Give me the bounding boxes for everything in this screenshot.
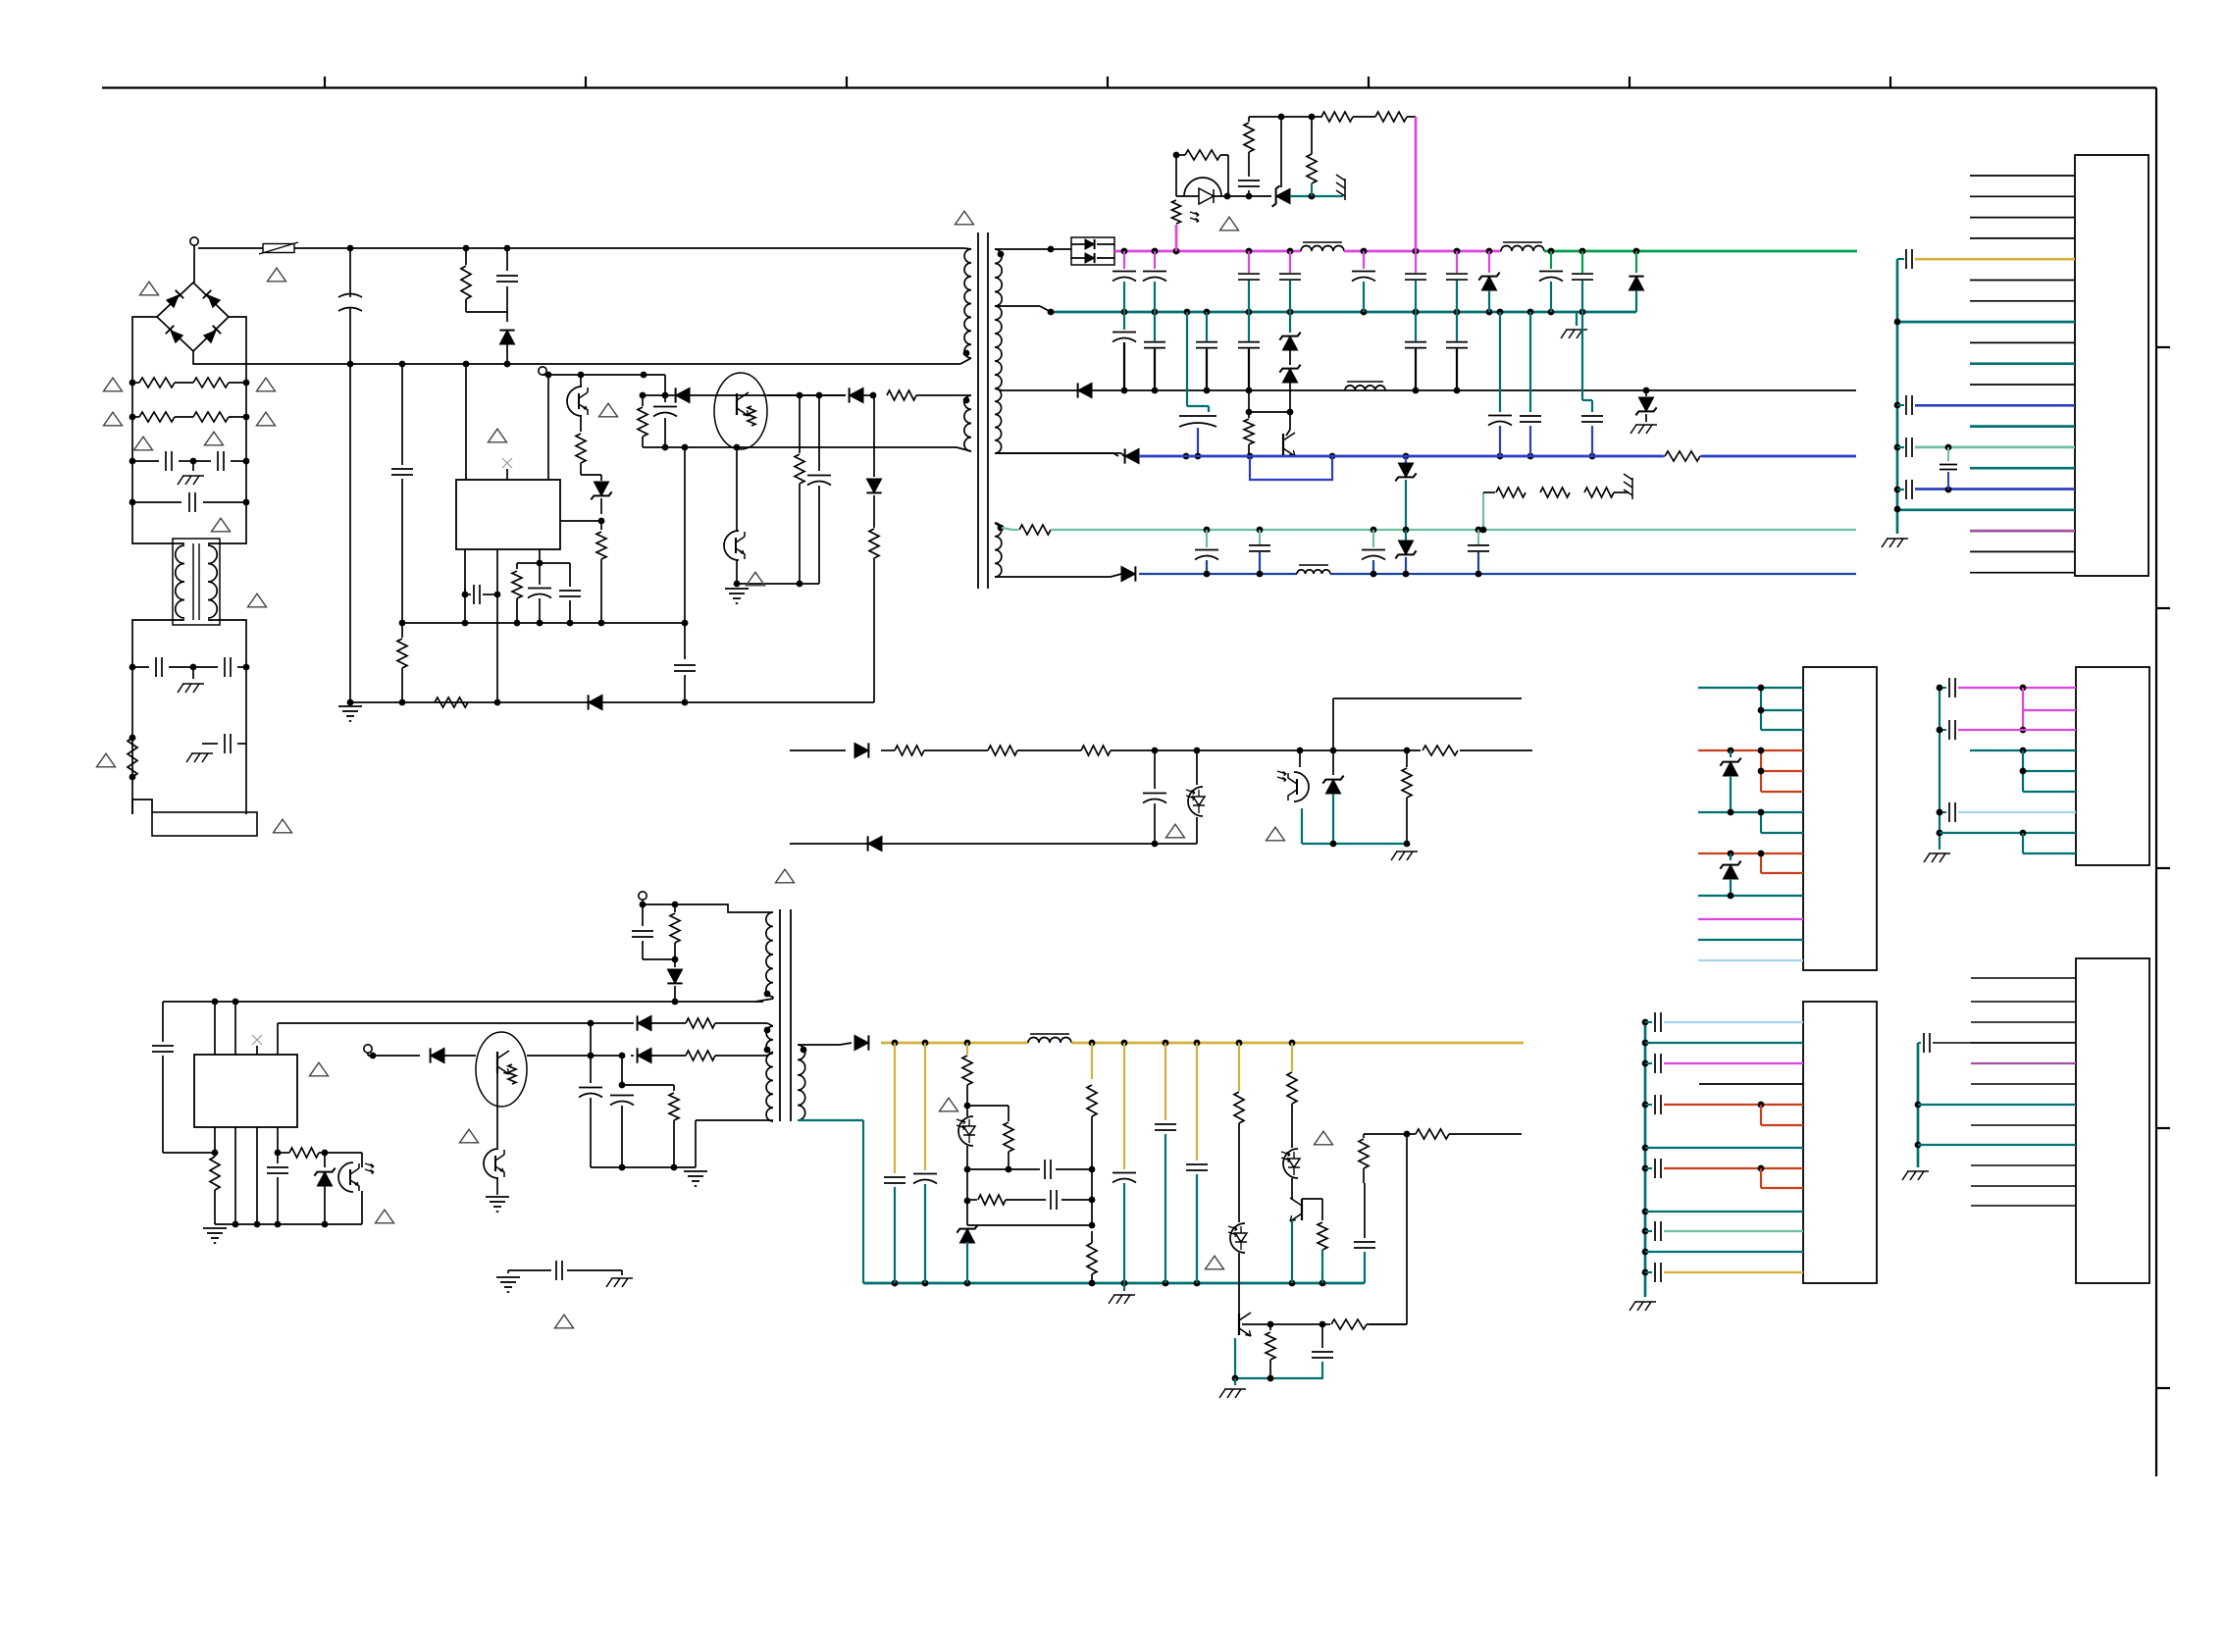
resistor R55 [1234,1092,1244,1123]
pin wire [1664,1271,1803,1273]
junction [1194,748,1201,754]
junction [233,1221,239,1228]
wire y1192 [967,1168,1040,1170]
zener ZD12 [959,1229,974,1243]
junction [1287,309,1294,316]
ground earth [496,1177,498,1195]
triangle mark [747,572,765,586]
pin wire [1971,1205,2076,1207]
junction [1403,453,1410,460]
wire [567,1269,622,1271]
wire rc row [517,562,570,564]
junction [1475,527,1482,534]
opto U10 LED [1230,1223,1245,1253]
transformer T1 aux winding [964,395,971,451]
capacitor C vcc [401,364,403,465]
wire [581,474,601,476]
pin wire [1971,1001,2076,1003]
junction [1257,527,1264,534]
wire [967,1105,1009,1107]
teal bus CN5 [1917,1043,1920,1167]
wire [966,1146,968,1225]
junction [1246,248,1253,255]
border right line [2155,88,2157,1477]
junction [1194,1040,1201,1047]
resistor Rb3 [1584,488,1614,497]
pin wire [1664,1167,1803,1169]
resistor R ov4 [1311,117,1313,154]
rail pale green [1002,528,1012,530]
junction [1945,444,1952,451]
pin x mark [506,469,508,480]
pin magenta 1 [1958,687,2076,689]
junction [1475,571,1482,578]
junction [1497,309,1504,316]
diode D7 [873,395,875,477]
junction [1413,309,1420,316]
junction [1183,453,1190,460]
junction [922,1280,929,1287]
resistor R ov3 [1248,117,1250,122]
transformer T2 core [779,909,781,1121]
pin teal [1933,1042,2076,1044]
pin magenta 2 [2023,709,2076,711]
capacitor C55 tall [1164,1043,1166,1120]
junction [1319,1280,1326,1287]
capacitor C60 [555,1261,557,1280]
bridge rectifier D1 [157,283,229,351]
capacitor C24 [1415,312,1417,341]
junction [1152,248,1159,255]
ground hatch [1929,852,1950,854]
wire stub top [1333,697,1522,699]
optocoupler U2 transistor [567,387,582,416]
junction [1497,453,1504,460]
pin lblue [1958,811,2076,813]
triangle mark [376,1210,394,1223]
wire opto emitter [736,559,738,584]
pin wire [1699,1083,1803,1085]
junction [1257,571,1264,578]
border tick [1889,77,1891,88]
junction [1204,387,1211,394]
pin wire [1698,939,1803,941]
triangle mark [940,1098,958,1111]
wire [643,958,675,960]
pin wire [1761,729,1803,731]
capacitor CX2 [132,501,181,503]
border tick [585,77,587,88]
pin teal 3 [2023,791,2076,793]
capacitor C57 [1321,1324,1323,1348]
triangle mark [1267,827,1285,841]
junction [1330,748,1337,754]
pin wire [1698,895,1803,897]
junction [870,392,877,399]
junction [1454,309,1461,316]
pale riser [1482,492,1484,530]
pin wire [1970,384,2075,386]
ground hatch [1887,538,1908,540]
wire pin [547,375,549,480]
capacitor C41 [277,1153,279,1163]
diode D50 [854,1035,868,1050]
wire vcc rail [163,1001,763,1003]
diode D14 [1121,566,1135,581]
scr overvoltage Q [1276,188,1290,203]
pin wire [1664,1062,1803,1064]
junction [1413,248,1420,255]
capacitor bus [1905,395,1907,415]
pin wire [1664,1104,1803,1106]
ground earth T2 [684,1170,707,1172]
junction [504,245,511,252]
wire base row Q3 [1248,390,1250,412]
junction [1454,387,1461,394]
wire [1238,1253,1240,1314]
capacitor bus [1940,687,1946,689]
capacitor C32 [1372,530,1374,547]
opto U8 [484,1149,498,1178]
capacitor C4 [684,447,686,659]
vertical links CN2 [1760,688,1762,730]
pin wire [1761,1187,1803,1189]
junction [1236,1040,1243,1047]
terminal standby [364,1045,372,1053]
junction [1579,309,1586,316]
junction [1579,248,1586,255]
wire [1280,117,1282,187]
transformer T2 primary W2 [766,1026,773,1121]
capacitor C30 [1206,530,1208,547]
ic U6 standby controller [194,1055,297,1127]
pin wire colored [1915,446,2075,449]
resistor R51 [1008,1106,1009,1121]
teal gnd link [1301,808,1303,844]
pin wire [1970,237,2075,239]
diode D13 [1125,448,1139,463]
junction [129,458,136,465]
wire pin Vcc [465,364,467,480]
wire S1 tap [995,248,1051,250]
pin wire [1970,175,2075,177]
pin wire [1761,1124,1803,1126]
teal bus CN4 [1644,1022,1647,1297]
wire [1176,195,1199,197]
border tick [1107,77,1109,88]
diode D15 [854,743,868,757]
capacitor C31 [1259,530,1261,544]
pin wire [1698,749,1803,751]
triangle mark [1206,1256,1224,1269]
junction [463,245,470,252]
junction [1121,248,1128,255]
wire [132,382,139,384]
junction [1548,309,1555,316]
transformer T1 secondary winding S3 [995,388,1002,453]
resistor R input d [193,412,229,422]
capacitor C17 [1550,251,1552,269]
wire [444,1055,476,1057]
transistor Q50 [1238,1314,1240,1335]
pin wire [1971,1021,2076,1023]
junction [1894,506,1901,513]
resistor R s3 [1081,746,1111,755]
border tick right [2156,1127,2170,1129]
connector CN2 [1803,667,1877,970]
ic pins bottom [214,1127,216,1153]
capacitor CY2 [193,460,211,462]
wire S4 bottom [995,576,1111,578]
triangle mark [956,211,974,225]
wire [1367,1323,1407,1325]
junction [1413,387,1420,394]
resistor R s5 [1406,750,1408,767]
transformer T2 primary W1 [766,912,773,997]
resistor R q3 [1248,412,1250,418]
junction [1894,444,1901,451]
capacitor C20 [1123,312,1125,330]
junction [129,499,136,506]
junction [588,1053,595,1059]
resistor R ov2 [1353,116,1375,118]
resistor R45 [674,904,676,912]
inductor L4 [1345,386,1385,390]
junction [1163,1040,1169,1047]
rail magenta 2 [1344,250,1501,253]
opto U4 LED [1196,750,1198,785]
wire opto collector [736,447,738,519]
pin wire colored [1970,425,2075,428]
transistor Q3 [1282,434,1284,455]
pin wire [1970,280,2075,282]
capacitor C10 [1123,251,1125,269]
junction [1486,248,1493,255]
pin wire [1761,832,1803,834]
capacitor bus [1642,1269,1649,1276]
triangle mark [310,1062,329,1076]
pin wire [1971,1185,2076,1187]
junction [463,361,470,368]
capacitor C58 [1363,1177,1365,1183]
junction [1643,387,1650,394]
resistor R input b [193,378,229,387]
wire collector [1302,1198,1322,1200]
junction [347,361,354,368]
capacitor C18 [1581,251,1583,273]
wire [466,311,507,313]
wire sec top [798,1044,840,1046]
capacitor C50 [894,1043,896,1173]
triangle mark [268,268,286,282]
transformer T1 core [977,232,979,589]
capacitor bus [1905,249,1907,269]
border tick [1629,77,1630,88]
junction [964,1103,971,1110]
zener ZD8 [1332,750,1334,775]
pin wire [1971,977,2076,979]
capacitor C3 [569,563,571,587]
border tick right [2156,607,2170,609]
wire fb rail [278,1022,591,1024]
triangle mark [599,403,618,417]
junction [1152,748,1159,754]
ground hatch [611,1277,633,1279]
junction [1173,248,1180,255]
triangle mark [1315,1131,1333,1145]
emitter teal [1234,1338,1236,1378]
wire [622,1084,674,1086]
zener ZD7 [1405,530,1407,541]
capacitor bus [1642,1228,1649,1235]
junction [640,392,647,399]
gnd bus [215,1223,362,1225]
diode D40 [431,1048,444,1062]
capacitor C s1 [1154,750,1156,789]
pin wire colored [1970,362,2075,365]
teal drop x1560 [1529,312,1531,412]
snubber terminal [639,892,647,900]
wire pin [539,549,541,563]
wire aux rail right [767,394,846,396]
zener ZD4 [1282,369,1297,383]
junction [1371,527,1377,534]
pin wire [1664,1230,1803,1232]
junction [797,392,803,399]
junction [1246,387,1253,394]
capacitor C26 [1208,406,1210,412]
ic U1 PWM controller [456,480,560,549]
inductor L6 [1028,1038,1071,1044]
wire [1407,1133,1416,1135]
capacitor bus [1905,438,1907,457]
diode D11 [1635,251,1637,273]
opto U11 LED [1283,1149,1298,1178]
pin wire [1761,770,1803,772]
regulator chain x986 [966,1043,968,1055]
resistor R42 [651,1022,686,1024]
junction [1486,309,1493,316]
resistor R60 [1363,1134,1365,1138]
ground earth [496,1276,520,1278]
connector CN3 [2076,667,2149,865]
border tick [324,77,326,88]
ground hatch [1907,1170,1929,1172]
resistor R7 [799,395,801,453]
resistor R59 [1321,1210,1323,1220]
capacitor bus [1642,1165,1649,1172]
junction [619,1164,626,1171]
junction [1089,1040,1096,1047]
pin wire [1971,1042,2076,1044]
diode D41 [638,1015,651,1030]
junction [1404,748,1411,754]
resistor R61 [1416,1129,1449,1139]
wire bridge left [132,317,157,381]
wire bridge right [229,317,246,381]
wire top ov [1249,116,1322,118]
resistor R led [1172,200,1181,224]
junction [1194,1280,1201,1287]
pin wire [1970,300,2075,302]
ground chassis [192,461,194,471]
teal bus vertical right [1896,259,1899,534]
junction [129,664,136,671]
capacitor C21 [1154,312,1156,341]
triangle mark [776,869,795,883]
wire [132,416,139,418]
junction [1289,1040,1296,1047]
teal drop x1210 [1186,312,1188,406]
ic pins top [214,1002,216,1055]
capacitor bus [1940,729,1946,731]
wire left [162,1002,164,1042]
capacitor C pale-blue [1947,447,1949,461]
junction [212,999,219,1006]
triangle mark [97,753,116,767]
inductor L2 [1301,246,1344,252]
junction [1224,193,1231,200]
wire aux bottom bus [643,446,957,448]
capacitor C16 [1456,251,1458,273]
junction [1121,387,1128,394]
diode D6 [850,387,863,402]
rail green [1544,250,1857,253]
junction [1163,1280,1169,1287]
junction [1289,1280,1296,1287]
pin wire [1761,709,1803,711]
junction [1204,527,1211,534]
capacitor C53 [1050,1190,1052,1210]
wire S2 tap [995,305,1040,307]
wire sec bottom teal [798,1119,863,1121]
wire pin [496,549,498,702]
capacitor C44 [642,904,644,926]
pin teal 4 [1940,832,2076,834]
capacitor C12 [1248,251,1250,273]
junction [1361,309,1368,316]
resistor R40 [210,1157,220,1190]
pin wire colored [1915,404,2075,407]
resistor R opto emitter [580,416,582,432]
pin wire [1970,341,2075,343]
junction [1371,571,1377,578]
opto U7 [325,1152,362,1154]
wire gate bus [545,374,665,376]
capacitor C23 [1248,312,1250,341]
ground hatch [1634,1301,1656,1303]
resistor R blue [1665,451,1700,461]
wire [1291,1220,1293,1283]
wire S4 top [995,523,1002,528]
wire x678 cap [664,375,666,402]
wire step [675,904,773,912]
wire EMI lower right [245,630,247,814]
wire sense rail [790,749,846,751]
ground earth primary [338,705,362,707]
fuse F1 [263,244,294,253]
transformer T1 primary winding [964,249,971,358]
wire blue cut [1663,450,1702,462]
pin wire [1642,1145,1649,1152]
junction [1152,841,1159,848]
resistor R fb [600,521,602,530]
teal bus CN3 [1939,688,1940,850]
wire aux rail [643,394,846,396]
capacitor C54 [1123,1043,1125,1169]
capacitor C51 [924,1043,926,1170]
junction [545,372,552,379]
